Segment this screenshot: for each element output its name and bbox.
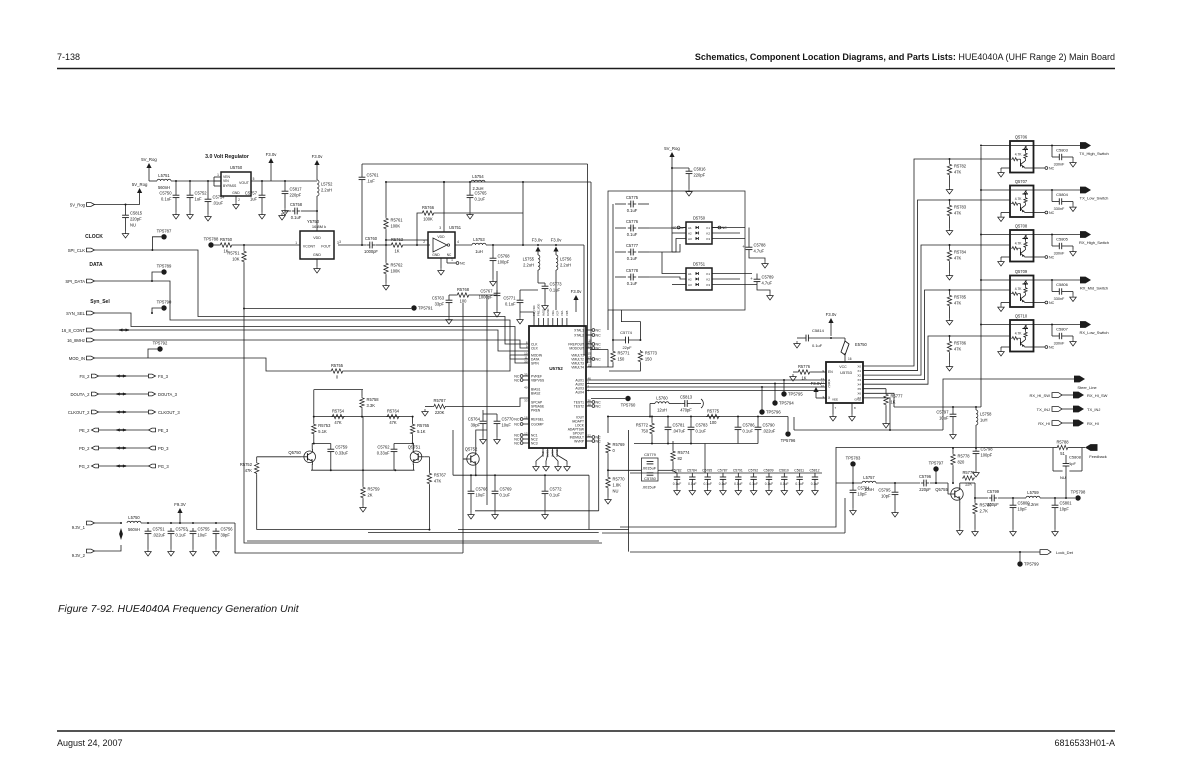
svg-text:C5795: C5795 <box>878 488 891 493</box>
svg-text:0.1uF: 0.1uF <box>475 197 486 202</box>
svg-text:R5762: R5762 <box>391 263 404 268</box>
Q5706 NC stub <box>1025 166 1055 170</box>
capacitor C5777 <box>615 243 649 261</box>
connector 5V_Rog input <box>70 202 95 207</box>
wire R5763 to opamp <box>404 244 430 246</box>
svg-text:RX_HI_SW: RX_HI_SW <box>1030 393 1051 398</box>
connector SPI_DATA <box>65 279 94 284</box>
wire vertical x588 <box>586 164 588 363</box>
svg-text:NC: NC <box>596 439 602 443</box>
wire Q5751 base <box>425 456 430 458</box>
capacitor C5803 <box>1052 146 1076 168</box>
wire R5787 to U5752 <box>447 398 529 406</box>
wire Q5706 output <box>1034 145 1081 147</box>
svg-text:C5787: C5787 <box>717 469 727 473</box>
wire mux to switch staircase bus <box>863 159 1010 384</box>
svg-text:Schematics, Component Location: Schematics, Component Location Diagrams,… <box>695 52 1115 62</box>
svg-text:TP5795: TP5795 <box>788 392 803 397</box>
testpoint TP5792 <box>148 341 168 359</box>
svg-text:NC: NC <box>596 328 602 332</box>
svg-text:1.8K: 1.8K <box>613 483 622 488</box>
U5752 FREPOUT MODOUT NC stubs <box>586 339 601 351</box>
capacitor C5756 <box>213 527 234 557</box>
svg-text:C5813: C5813 <box>680 395 693 400</box>
svg-text:TX_INJ: TX_INJ <box>1087 407 1100 412</box>
inductor L5756 <box>556 255 572 270</box>
capacitor C5761 <box>359 164 380 245</box>
svg-text:R5766: R5766 <box>422 205 435 210</box>
svg-text:X0: X0 <box>857 364 861 368</box>
wire Q5752 base <box>463 458 467 460</box>
svg-text:TP5792: TP5792 <box>153 341 168 346</box>
svg-text:L5751: L5751 <box>158 173 170 178</box>
svg-text:L5759: L5759 <box>1027 490 1039 495</box>
svg-text:X3: X3 <box>857 378 861 382</box>
capacitor C5750 <box>159 181 179 219</box>
IC U5753 <box>821 362 863 403</box>
svg-text:NC: NC <box>1049 255 1055 259</box>
svg-text:16: 16 <box>848 357 852 361</box>
connector 9.3V_1 <box>72 521 95 530</box>
regulator U5750 <box>214 165 251 196</box>
testpoint TP5787 <box>152 228 172 250</box>
svg-text:C5785: C5785 <box>702 469 712 473</box>
capacitor C5780 loop <box>642 473 657 490</box>
wire feedback rail <box>836 447 1053 449</box>
digital transistor Q5706 <box>1010 135 1034 173</box>
svg-text:DATA: DATA <box>89 262 103 268</box>
power F3.0v opamp A <box>532 238 544 256</box>
svg-text:PE_3: PE_3 <box>158 428 169 433</box>
resistor R5764 <box>386 408 400 425</box>
svg-text:Figure 7-92. HUE4040A Frequenc: Figure 7-92. HUE4040A Frequency Generati… <box>58 603 300 615</box>
wire bottom bus A <box>602 498 845 533</box>
wire L5760 node <box>649 404 655 418</box>
svg-text:5.1K: 5.1K <box>318 429 327 434</box>
svg-text:VRA: VRA <box>560 310 564 316</box>
svg-text:10pF: 10pF <box>858 492 868 497</box>
svg-text:C5750: C5750 <box>159 191 172 196</box>
svg-text:39pF: 39pF <box>221 533 231 538</box>
wire bias rail top <box>314 390 363 417</box>
testpoint TP5796b <box>781 417 796 444</box>
svg-text:C5772: C5772 <box>550 487 563 492</box>
svg-text:R5754: R5754 <box>332 408 345 413</box>
svg-text:C5777: C5777 <box>626 243 639 248</box>
wire L5753 out <box>486 244 586 355</box>
svg-text:NC: NC <box>1049 211 1055 215</box>
svg-text:TP5760: TP5760 <box>621 403 636 408</box>
U5752 left NC stubs <box>514 374 529 445</box>
svg-text:TP5798: TP5798 <box>1071 490 1086 495</box>
svg-text:16_8MHz: 16_8MHz <box>67 338 85 343</box>
svg-text:TP5796: TP5796 <box>781 438 796 443</box>
capacitor C5814 bypass <box>794 328 845 348</box>
resistor R5752 <box>240 457 259 475</box>
wire Q5751 emitter <box>413 464 415 470</box>
svg-text:VRB: VRB <box>565 310 569 316</box>
wire opamp out <box>455 244 472 246</box>
capacitor C5764 <box>468 410 486 444</box>
svg-text:100K: 100K <box>391 269 401 274</box>
D5750 NC left <box>671 226 686 230</box>
digital transistor Q5708 <box>1010 224 1034 262</box>
ground U5751 <box>438 258 445 275</box>
svg-text:C5796: C5796 <box>919 474 932 479</box>
svg-text:1K: 1K <box>801 376 806 381</box>
U5753 X pin labels <box>857 364 861 400</box>
testpoint TP5795 <box>781 379 803 397</box>
testpoint TP5790 <box>152 300 172 314</box>
wire X6 to output filter <box>863 393 894 407</box>
svg-text:NC: NC <box>1049 345 1055 349</box>
label Syn_Sel <box>90 299 110 305</box>
diode array D5750 <box>686 216 712 245</box>
capacitor C5771 <box>503 290 538 324</box>
svg-text:R5761: R5761 <box>391 218 404 223</box>
svg-text:AUX4: AUX4 <box>575 390 584 394</box>
resistor R5772 <box>636 417 654 436</box>
svg-text:100K: 100K <box>391 224 401 229</box>
label CLOCK <box>85 234 103 240</box>
svg-text:C5799: C5799 <box>987 489 1000 494</box>
capacitor C5775 <box>615 195 649 213</box>
svg-text:10uF: 10uF <box>939 416 949 421</box>
svg-text:C5763: C5763 <box>432 296 445 301</box>
svg-text:PG_2: PG_2 <box>79 464 90 469</box>
svg-text:TP5787: TP5787 <box>157 228 172 233</box>
inductor L5757 <box>862 475 876 492</box>
svg-text:0.33uF: 0.33uF <box>377 451 390 456</box>
page number <box>57 52 80 62</box>
svg-text:VMULT4: VMULT4 <box>571 365 584 369</box>
svg-text:0.33uF: 0.33uF <box>335 451 348 456</box>
capacitor C5812 <box>809 469 819 496</box>
connector 9.3V_2 <box>72 549 95 558</box>
svg-text:GND: GND <box>232 191 240 195</box>
svg-text:C5797: C5797 <box>936 410 949 415</box>
svg-text:C5817: C5817 <box>290 187 303 192</box>
capacitor C5804 <box>1052 190 1076 212</box>
svg-text:VBPVSS: VBPVSS <box>531 378 545 382</box>
svg-text:10uF: 10uF <box>502 423 512 428</box>
svg-text:100K: 100K <box>423 217 433 222</box>
svg-text:6816533H01-A: 6816533H01-A <box>1054 738 1115 748</box>
wire regulator input rail <box>149 180 221 182</box>
svg-text:C5806: C5806 <box>1056 282 1069 287</box>
svg-text:C5751: C5751 <box>153 527 166 532</box>
wire aux bus 1 <box>586 379 826 381</box>
svg-text:L5758: L5758 <box>980 411 992 416</box>
svg-text:R5783: R5783 <box>954 205 967 210</box>
wire bottom left rail <box>247 540 599 542</box>
wire L5756 down <box>555 270 557 310</box>
svg-text:C5781: C5781 <box>673 423 686 428</box>
connector pair CLKOUT_2/CLKOUT_3 <box>68 410 180 415</box>
wire R5761 to node <box>385 230 387 262</box>
svg-text:R5763: R5763 <box>391 237 404 242</box>
wire Q5708 output <box>1034 234 1081 236</box>
capacitor C5755 <box>186 527 210 557</box>
wire SPI_CLK <box>95 249 530 344</box>
svg-text:C5765: C5765 <box>475 191 488 196</box>
svg-text:C5762: C5762 <box>377 445 390 450</box>
svg-text:0.1uF: 0.1uF <box>703 482 711 486</box>
wire aux bus 3 <box>586 386 826 388</box>
svg-text:R5775: R5775 <box>707 408 720 413</box>
svg-text:3.0 Volt Regulator: 3.0 Volt Regulator <box>205 154 249 160</box>
svg-text:22pF: 22pF <box>622 345 632 350</box>
wire vertical x613 <box>612 204 614 330</box>
testpoint TP5794 <box>772 383 794 406</box>
svg-text:R5753: R5753 <box>318 423 331 428</box>
svg-text:XTAL1: XTAL1 <box>574 328 584 332</box>
svg-text:.0015uF: .0015uF <box>642 465 657 470</box>
svg-text:220pF: 220pF <box>987 502 999 507</box>
opamp NC pin1 <box>447 258 466 266</box>
capacitor C5754 <box>205 181 226 221</box>
svg-text:0.1uF: 0.1uF <box>176 533 187 538</box>
capacitor C5760 series <box>364 236 378 254</box>
svg-text:C5758: C5758 <box>290 202 303 207</box>
svg-text:C5784: C5784 <box>687 469 697 473</box>
digital transistor Q5707 <box>1010 179 1034 217</box>
svg-text:TP5791: TP5791 <box>418 306 433 311</box>
vco Y5750 <box>295 219 339 259</box>
svg-text:RX_Mid_Switch: RX_Mid_Switch <box>1080 286 1108 291</box>
wire oscillator frame left <box>244 397 602 543</box>
svg-text:CLKOUT_3: CLKOUT_3 <box>158 410 180 415</box>
svg-text:NU: NU <box>1060 475 1066 480</box>
svg-text:5: 5 <box>253 177 255 181</box>
wire decoupling rail <box>630 472 822 474</box>
svg-text:DVDD: DVDD <box>546 309 550 316</box>
svg-text:47K: 47K <box>389 420 397 425</box>
capacitor C5794 <box>850 483 871 515</box>
svg-text:L5755: L5755 <box>523 256 535 261</box>
wire U5750 gnd pin2 <box>236 196 240 202</box>
wire Q5755 emitter <box>957 502 964 535</box>
svg-text:16_8_CONT: 16_8_CONT <box>61 328 85 333</box>
footer part number <box>1054 738 1115 748</box>
svg-text:C5783: C5783 <box>696 423 709 428</box>
resistor R5755 <box>330 363 344 380</box>
svg-text:1uF: 1uF <box>250 197 258 202</box>
svg-text:TEST2: TEST2 <box>574 404 584 408</box>
U5752 ground pins <box>533 448 571 471</box>
svg-text:R5784: R5784 <box>954 250 967 255</box>
svg-text:4.7uF: 4.7uF <box>754 249 765 254</box>
wire top feedback <box>362 163 588 165</box>
wire 9.3V join <box>95 522 123 551</box>
svg-text:FS_3: FS_3 <box>158 374 169 379</box>
resistor R5784 <box>946 244 967 280</box>
capacitor C5798 <box>973 447 994 478</box>
svg-text:REFSEL: REFSEL <box>531 417 544 421</box>
ground Y5750 <box>314 259 321 273</box>
svg-text:CEX: CEX <box>531 346 539 350</box>
svg-text:150: 150 <box>618 357 626 362</box>
resistor R5775 <box>706 408 720 425</box>
testpoint TP5760 <box>591 396 636 408</box>
testpoint TP5783 <box>846 456 861 485</box>
wire 5V_Rog input <box>95 204 140 206</box>
figure caption <box>58 603 300 615</box>
svg-text:L5750: L5750 <box>128 515 140 520</box>
svg-text:A2: A2 <box>688 231 692 235</box>
wire FOUT to C5760 <box>338 240 367 246</box>
wire Q5755 collector out <box>960 483 988 499</box>
svg-text:R5773: R5773 <box>645 351 658 356</box>
wire emitter rail <box>311 469 415 471</box>
resistor R5765 <box>410 417 429 445</box>
inductor L5760 <box>655 395 669 412</box>
svg-text:220pF: 220pF <box>694 173 706 178</box>
svg-text:Q5755: Q5755 <box>935 487 948 492</box>
svg-text:R5764: R5764 <box>387 408 400 413</box>
svg-text:2: 2 <box>423 240 425 244</box>
digital transistor Q5710 <box>1010 314 1034 352</box>
wire section frame right <box>620 447 836 527</box>
capacitor C5757 <box>245 181 265 219</box>
ground U5750 <box>233 202 240 209</box>
capacitor C5817 <box>282 181 303 215</box>
svg-text:C5789: C5789 <box>762 275 775 280</box>
svg-text:2.2uH: 2.2uH <box>523 262 534 267</box>
svg-text:220pF: 220pF <box>919 487 931 492</box>
resistor R5779 feedback <box>962 470 975 487</box>
svg-text:C5759: C5759 <box>335 445 348 450</box>
resistor R5770 <box>605 476 626 504</box>
svg-text:330nF: 330nF <box>1054 252 1065 256</box>
output arrow TX_High_Switch <box>1079 142 1109 156</box>
svg-text:8.2nH: 8.2nH <box>1028 502 1039 507</box>
ground Q5708 emitter <box>998 257 1010 266</box>
svg-text:10nH: 10nH <box>864 487 874 492</box>
svg-text:SPIN: SPIN <box>531 361 539 365</box>
svg-text:820: 820 <box>958 460 966 465</box>
wire L5755 down <box>538 270 545 283</box>
capacitor C5767 <box>470 271 500 317</box>
svg-text:VIN: VIN <box>223 179 229 183</box>
svg-text:3: 3 <box>439 226 441 230</box>
svg-text:R5758: R5758 <box>367 397 380 402</box>
svg-text:C5760: C5760 <box>365 236 378 241</box>
wire y430 run <box>794 417 943 431</box>
connector Lock_Det <box>1040 550 1074 555</box>
capacitor C5807 <box>1052 325 1076 347</box>
wire frame line B <box>458 529 629 531</box>
svg-text:VOUT: VOUT <box>239 181 250 185</box>
wire R5769 node <box>607 454 642 476</box>
capacitor C5795 <box>878 483 898 517</box>
svg-text:TP5797: TP5797 <box>929 461 944 466</box>
svg-text:1pF: 1pF <box>1069 461 1076 466</box>
svg-text:C5792: C5792 <box>748 469 758 473</box>
svg-text:5.1K: 5.1K <box>417 429 426 434</box>
svg-text:10pF: 10pF <box>1060 507 1070 512</box>
capacitor C5805 <box>1052 235 1076 257</box>
svg-text:330nF: 330nF <box>1054 163 1065 167</box>
svg-text:Feedback: Feedback <box>1089 454 1107 459</box>
header rule <box>57 68 1115 70</box>
svg-text:CLKOUT_2: CLKOUT_2 <box>68 410 90 415</box>
transistor Q5751 <box>408 445 425 465</box>
svg-text:C5768: C5768 <box>498 254 511 259</box>
inductor L5758 <box>976 407 992 448</box>
connector pair PE_2/PE_3 <box>79 428 169 433</box>
svg-text:0.1uF: 0.1uF <box>812 343 823 348</box>
svg-text:R5776: R5776 <box>798 364 811 369</box>
capacitor C5781 <box>665 417 686 434</box>
svg-text:E5750: E5750 <box>855 342 868 347</box>
resistor R5750 <box>214 237 233 254</box>
svg-text:330nF: 330nF <box>1054 297 1065 301</box>
svg-text:47K: 47K <box>245 468 253 473</box>
wire frame line D <box>628 430 630 552</box>
svg-text:C5771: C5771 <box>503 296 516 301</box>
svg-text:4.7K: 4.7K <box>1015 332 1023 336</box>
wire filter bottom rail <box>634 433 758 473</box>
power F3.0v pll <box>571 289 583 312</box>
transistor Q5750 <box>288 449 315 465</box>
svg-text:9.3V_2: 9.3V_2 <box>72 553 86 558</box>
power F9.3V <box>174 502 186 523</box>
wire dnet frame <box>608 191 745 310</box>
svg-text:R5786: R5786 <box>954 341 967 346</box>
svg-text:NC: NC <box>596 357 602 361</box>
svg-text:C5811: C5811 <box>794 469 804 473</box>
svg-text:C5815: C5815 <box>130 211 143 216</box>
svg-text:FOUT: FOUT <box>321 245 331 249</box>
svg-text:.0015uF: .0015uF <box>642 485 657 490</box>
svg-text:7-138: 7-138 <box>57 52 80 62</box>
svg-text:U5751: U5751 <box>449 225 462 230</box>
svg-text:NC3: NC3 <box>531 441 538 445</box>
svg-text:R5785: R5785 <box>954 295 967 300</box>
svg-text:AVDD: AVDD <box>541 309 545 316</box>
label DATA <box>89 262 103 268</box>
resistor R5774 <box>658 441 690 473</box>
wire aux bus 2 <box>586 383 826 385</box>
svg-text:40: 40 <box>524 386 528 390</box>
capacitor C5784 <box>687 469 697 496</box>
output arrow RX_Mid_Switch <box>1080 277 1108 291</box>
svg-text:C5773: C5773 <box>550 282 563 287</box>
ferrite bead E5750 <box>841 338 868 362</box>
svg-text:C5790: C5790 <box>763 423 776 428</box>
svg-text:NC: NC <box>1049 166 1055 170</box>
svg-text:L5753: L5753 <box>473 237 485 242</box>
svg-text:12K: 12K <box>965 482 973 487</box>
wire Q5709 output <box>1034 279 1081 281</box>
svg-text:100pF: 100pF <box>498 260 510 265</box>
svg-text:TP5799: TP5799 <box>1024 562 1039 567</box>
capacitor C5778 <box>615 268 649 286</box>
svg-text:2.7K: 2.7K <box>980 509 989 514</box>
resistor R5776 <box>790 364 826 381</box>
resistor R5771 <box>601 350 630 367</box>
inductor L5752 <box>317 180 333 196</box>
svg-text:220pF: 220pF <box>290 193 302 198</box>
svg-text:Q5706: Q5706 <box>1015 135 1028 140</box>
svg-text:A3: A3 <box>688 237 692 241</box>
svg-text:RX_HI: RX_HI <box>1038 421 1050 426</box>
wire X7 down <box>863 398 890 430</box>
svg-text:GND: GND <box>432 253 440 257</box>
svg-text:.047uF: .047uF <box>673 429 686 434</box>
svg-text:Q5708: Q5708 <box>1015 224 1028 229</box>
